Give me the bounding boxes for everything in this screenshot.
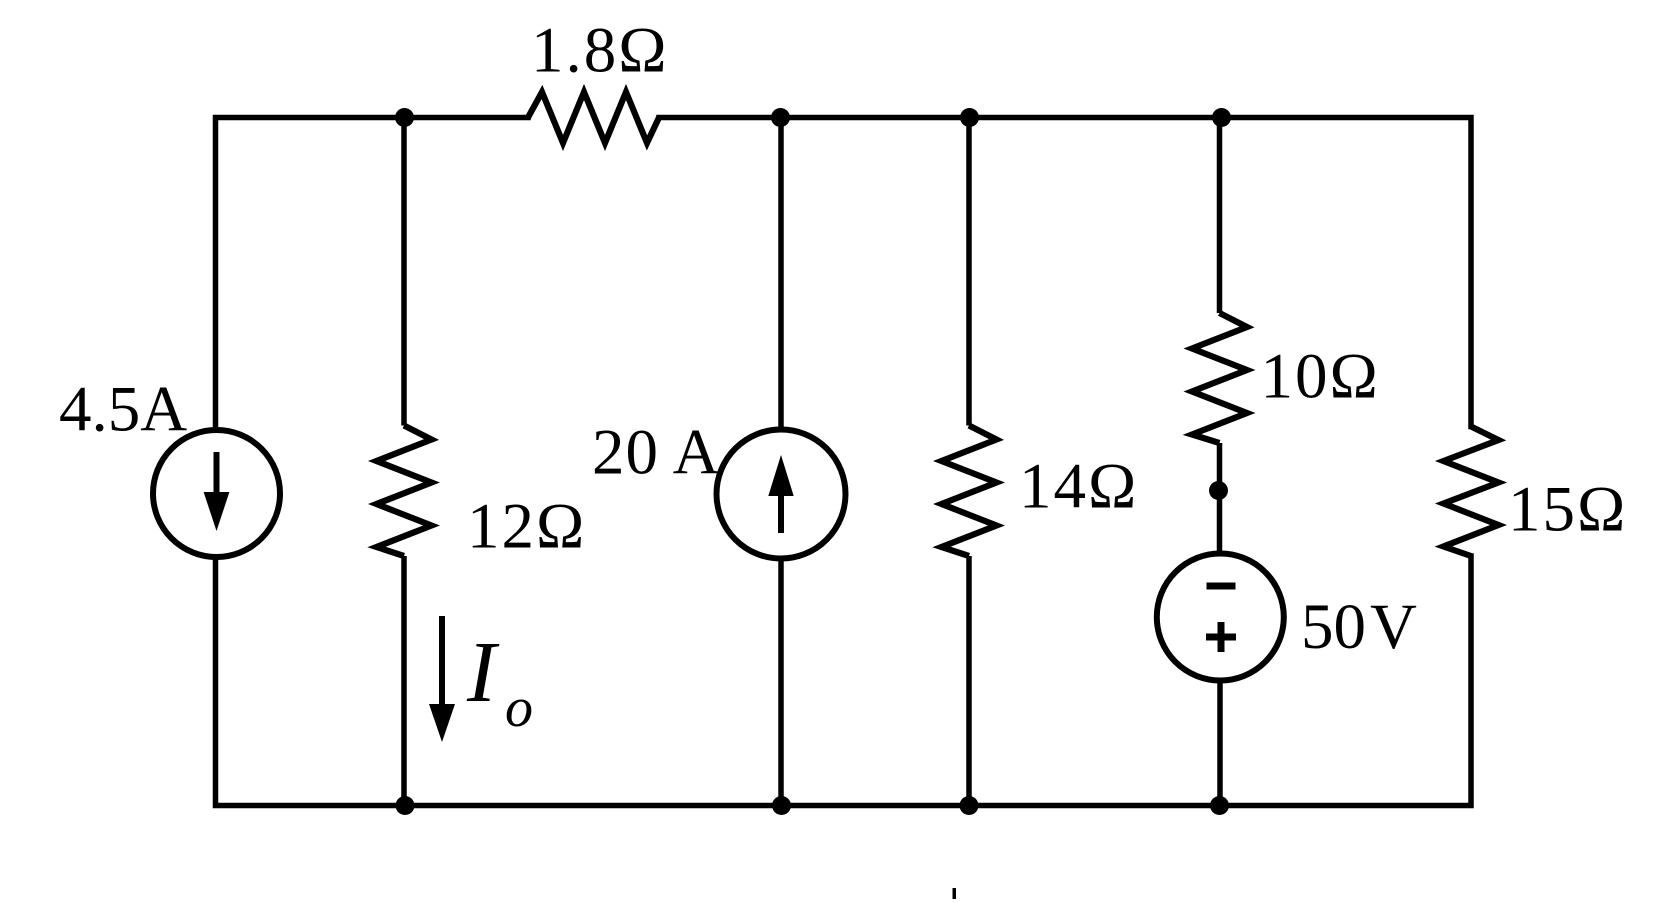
partial glyph: cropped caption mark at bottom center xyxy=(953,888,957,899)
node dot: bottom rail at branch 4 xyxy=(960,796,979,815)
wire: branch 3 upper (top rail down to 20A source) xyxy=(778,118,784,431)
resistor R 14ohm (zigzag) xyxy=(942,426,997,557)
svg-text:o: o xyxy=(505,677,533,739)
plus sign inside 50V source xyxy=(1206,622,1236,652)
resistor R 10ohm (zigzag) xyxy=(1192,313,1247,443)
current source I1 4.5A (circle) xyxy=(153,430,280,557)
svg-text:10Ω: 10Ω xyxy=(1261,341,1380,413)
node dot: top rail at branch 3 xyxy=(771,108,790,127)
wire: top-left rail (left vertical upper + top rail to 1.8-ohm resistor) xyxy=(216,118,529,431)
svg-text:50V: 50V xyxy=(1301,591,1417,663)
minus sign inside 50V source xyxy=(1207,583,1236,590)
current source I2 20A (circle) xyxy=(717,430,846,559)
node dot: top rail at branch 5 xyxy=(1212,108,1231,127)
voltage source V1 50V (circle) xyxy=(1157,554,1284,681)
node dot: top rail at branch 2 xyxy=(395,108,414,127)
svg-text:1.8Ω: 1.8Ω xyxy=(531,15,669,87)
wire: branch 4 upper (top rail down to 14-ohm) xyxy=(966,118,972,426)
svg-text:4.5A: 4.5A xyxy=(59,374,187,446)
svg-text:15Ω: 15Ω xyxy=(1508,474,1627,546)
node dot: node B between 10-ohm and 50V xyxy=(1209,481,1228,500)
svg-text:12Ω: 12Ω xyxy=(467,491,586,563)
wire: branch 5 lower (50V source down to bottom rail) xyxy=(1217,681,1223,806)
resistor R 15ohm (right branch zigzag) xyxy=(1444,427,1499,557)
arrow: 20A source internal up-arrow xyxy=(768,455,793,533)
node dot: bottom rail at branch 5 xyxy=(1210,796,1229,815)
arrow: Io current direction down-arrow xyxy=(429,616,455,742)
svg-text:20 A: 20 A xyxy=(592,417,721,489)
svg-text:14Ω: 14Ω xyxy=(1019,451,1138,523)
node dot: top rail at branch 4 xyxy=(960,108,979,127)
wire: right vertical lower + bottom rail + left vertical lower xyxy=(216,556,1472,806)
node dot: bottom rail at branch 3 xyxy=(772,796,791,815)
wire: branch 5 upper (top rail down to 10-ohm) xyxy=(1217,118,1223,314)
wire: left vertical into 4.5A source top xyxy=(213,430,219,432)
wire: top rail right of 1.8-ohm to top-right corner, down to 15-ohm xyxy=(659,118,1471,427)
node dot: bottom rail at branch 2 xyxy=(396,796,415,815)
resistor R 12ohm (zigzag) xyxy=(377,426,432,557)
wire: branch 5 middle (10-ohm through node B to 50V source) xyxy=(1217,443,1223,554)
wire: branch 2 lower (12-ohm down to bottom rail) xyxy=(401,556,407,806)
wire: branch 4 lower (14-ohm down to bottom rail) xyxy=(966,556,972,806)
svg-text:I: I xyxy=(466,623,500,720)
arrow: 4.5A source internal down-arrow xyxy=(204,452,230,531)
wire: branch 3 lower (20A source down to bottom rail) xyxy=(778,558,784,806)
resistor R 1.8ohm (top rail zigzag) xyxy=(528,92,659,143)
wire: branch 2 upper (node A down to 12-ohm) xyxy=(401,118,407,426)
